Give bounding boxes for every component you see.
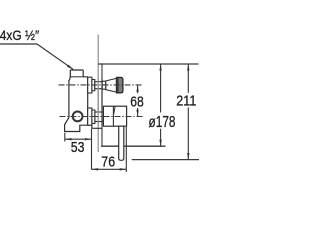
svg-text:211: 211 (176, 94, 196, 110)
svg-text:4xG ½″: 4xG ½″ (0, 28, 39, 43)
svg-text:ø178: ø178 (149, 114, 176, 131)
svg-text:68: 68 (130, 93, 144, 110)
svg-text:76: 76 (101, 154, 115, 171)
svg-text:53: 53 (71, 140, 85, 156)
